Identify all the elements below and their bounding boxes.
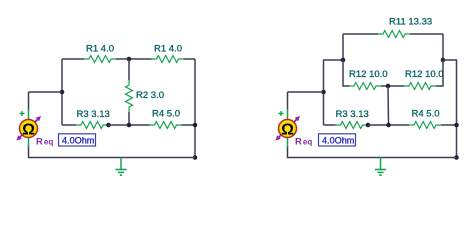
ohmmeter M2 (Req), circuit 2: [276, 109, 301, 147]
wire R12 row lead-in, circuit 2: [343, 60, 349, 86]
wire meter upper lead, circuit 1: [28, 92, 30, 110]
wire left vertical, circuit 1: [61, 59, 63, 125]
wire top-loop left segment, circuit 2: [343, 33, 378, 35]
junction node left, circuit 2: [341, 58, 346, 63]
junction node right, circuit 2: [441, 58, 446, 63]
ohmmeter M1 (Req), circuit 1: [17, 109, 42, 147]
wire bottom-row middle segment, circuit 2: [368, 124, 409, 126]
resistor R2 3.0 ohm, circuit 1: [126, 80, 133, 112]
wire meter top tap, circuit 2: [288, 91, 324, 93]
resistor R1 (second 4.0 ohm), circuit 1: [152, 56, 184, 63]
value readout box 4.0Ohm, circuit 2: [319, 134, 356, 146]
svg-text:Req: Req: [36, 137, 53, 148]
wire top-right segment, circuit 1: [184, 58, 196, 60]
wire bottom rail, circuit 1: [29, 146, 196, 158]
ground, circuit 1: [116, 158, 127, 176]
junction R3 right pin, circuit 2: [366, 123, 371, 128]
wire bottom rail, circuit 2: [288, 146, 457, 158]
wire top-loop left vertical, circuit 2: [342, 34, 344, 60]
wire right vertical, circuit 2: [443, 60, 457, 158]
junction R12 midpoint, circuit 2: [386, 84, 391, 89]
wire top-left segment, circuit 1: [62, 58, 84, 60]
wire right vertical, circuit 1: [194, 59, 196, 158]
junction R3 right pin, circuit 1: [106, 123, 111, 128]
wire bottom-row right segment, circuit 1: [182, 124, 196, 126]
resistor R4 5.0 ohm, circuit 1: [150, 122, 182, 129]
junction node bottom-mid, circuit 2: [386, 123, 391, 128]
wire R2 upper lead, circuit 1: [128, 59, 130, 80]
junction right bottom, circuit 2: [454, 155, 459, 160]
wire left step vertical, circuit 2: [324, 60, 344, 125]
svg-text:R2 3.0: R2 3.0: [136, 90, 164, 101]
wire between R1 resistors, circuit 1: [116, 58, 152, 60]
wire mid vertical, circuit 2: [387, 86, 390, 125]
svg-text:Req: Req: [295, 137, 312, 148]
value readout box 4.0Ohm, circuit 1: [59, 134, 96, 146]
svg-text:Ω: Ω: [281, 121, 294, 138]
wire bottom-row right segment, circuit 2: [441, 124, 457, 126]
svg-text:R12 10.0: R12 10.0: [349, 69, 388, 80]
svg-text:R1 4.0: R1 4.0: [86, 44, 114, 55]
wire bottom-row left segment, circuit 2: [324, 124, 336, 126]
wire top-loop right vertical, circuit 2: [442, 34, 444, 60]
svg-text:4.0Ohm: 4.0Ohm: [322, 135, 354, 145]
junction right mid, circuit 2: [454, 123, 459, 128]
wire bottom-row middle segment, circuit 1: [109, 124, 150, 126]
ground, circuit 2: [375, 158, 386, 176]
svg-text:R4 5.0: R4 5.0: [412, 109, 440, 120]
wire bottom-row left segment, circuit 1: [62, 124, 76, 126]
svg-text:R1 4.0: R1 4.0: [154, 44, 182, 55]
wire meter upper lead, circuit 2: [287, 92, 289, 110]
wire between R12 resistors, circuit 2: [381, 85, 404, 87]
resistor R12 (second 10.0 ohm), circuit 2: [404, 83, 436, 90]
junction node bottom-mid, circuit 1: [127, 123, 132, 128]
resistor R1 (first 4.0 ohm), circuit 1: [84, 56, 116, 63]
resistor R4 5.0 ohm, circuit 2: [409, 122, 441, 129]
junction meter tap, circuit 2: [321, 90, 326, 95]
svg-text:Ω: Ω: [22, 121, 35, 138]
wire R12 row lead-out, circuit 2: [436, 60, 443, 86]
resistor R12 (first 10.0 ohm), circuit 2: [349, 83, 381, 90]
wire meter top tap, circuit 1: [29, 91, 63, 93]
junction right bottom, circuit 1: [193, 155, 198, 160]
resistor R11 13.33 ohm, circuit 2: [378, 31, 410, 38]
svg-text:4.0Ohm: 4.0Ohm: [62, 135, 94, 145]
resistor R3 3.13 ohm, circuit 2: [336, 122, 368, 129]
junction right mid, circuit 1: [193, 123, 198, 128]
svg-text:R3 3.13: R3 3.13: [336, 109, 369, 120]
svg-text:R3 3.13: R3 3.13: [77, 109, 110, 120]
resistor R3 3.13 ohm, circuit 1: [76, 122, 108, 129]
svg-text:R4 5.0: R4 5.0: [152, 109, 180, 120]
wire top-loop right segment, circuit 2: [410, 33, 443, 35]
svg-text:R12 10.0: R12 10.0: [405, 69, 444, 80]
junction node left tap, circuit 1: [60, 90, 65, 95]
junction node top-mid, circuit 1: [127, 57, 132, 62]
svg-text:R11 13.33: R11 13.33: [389, 17, 432, 28]
wire R2 lower lead, circuit 1: [128, 112, 130, 125]
